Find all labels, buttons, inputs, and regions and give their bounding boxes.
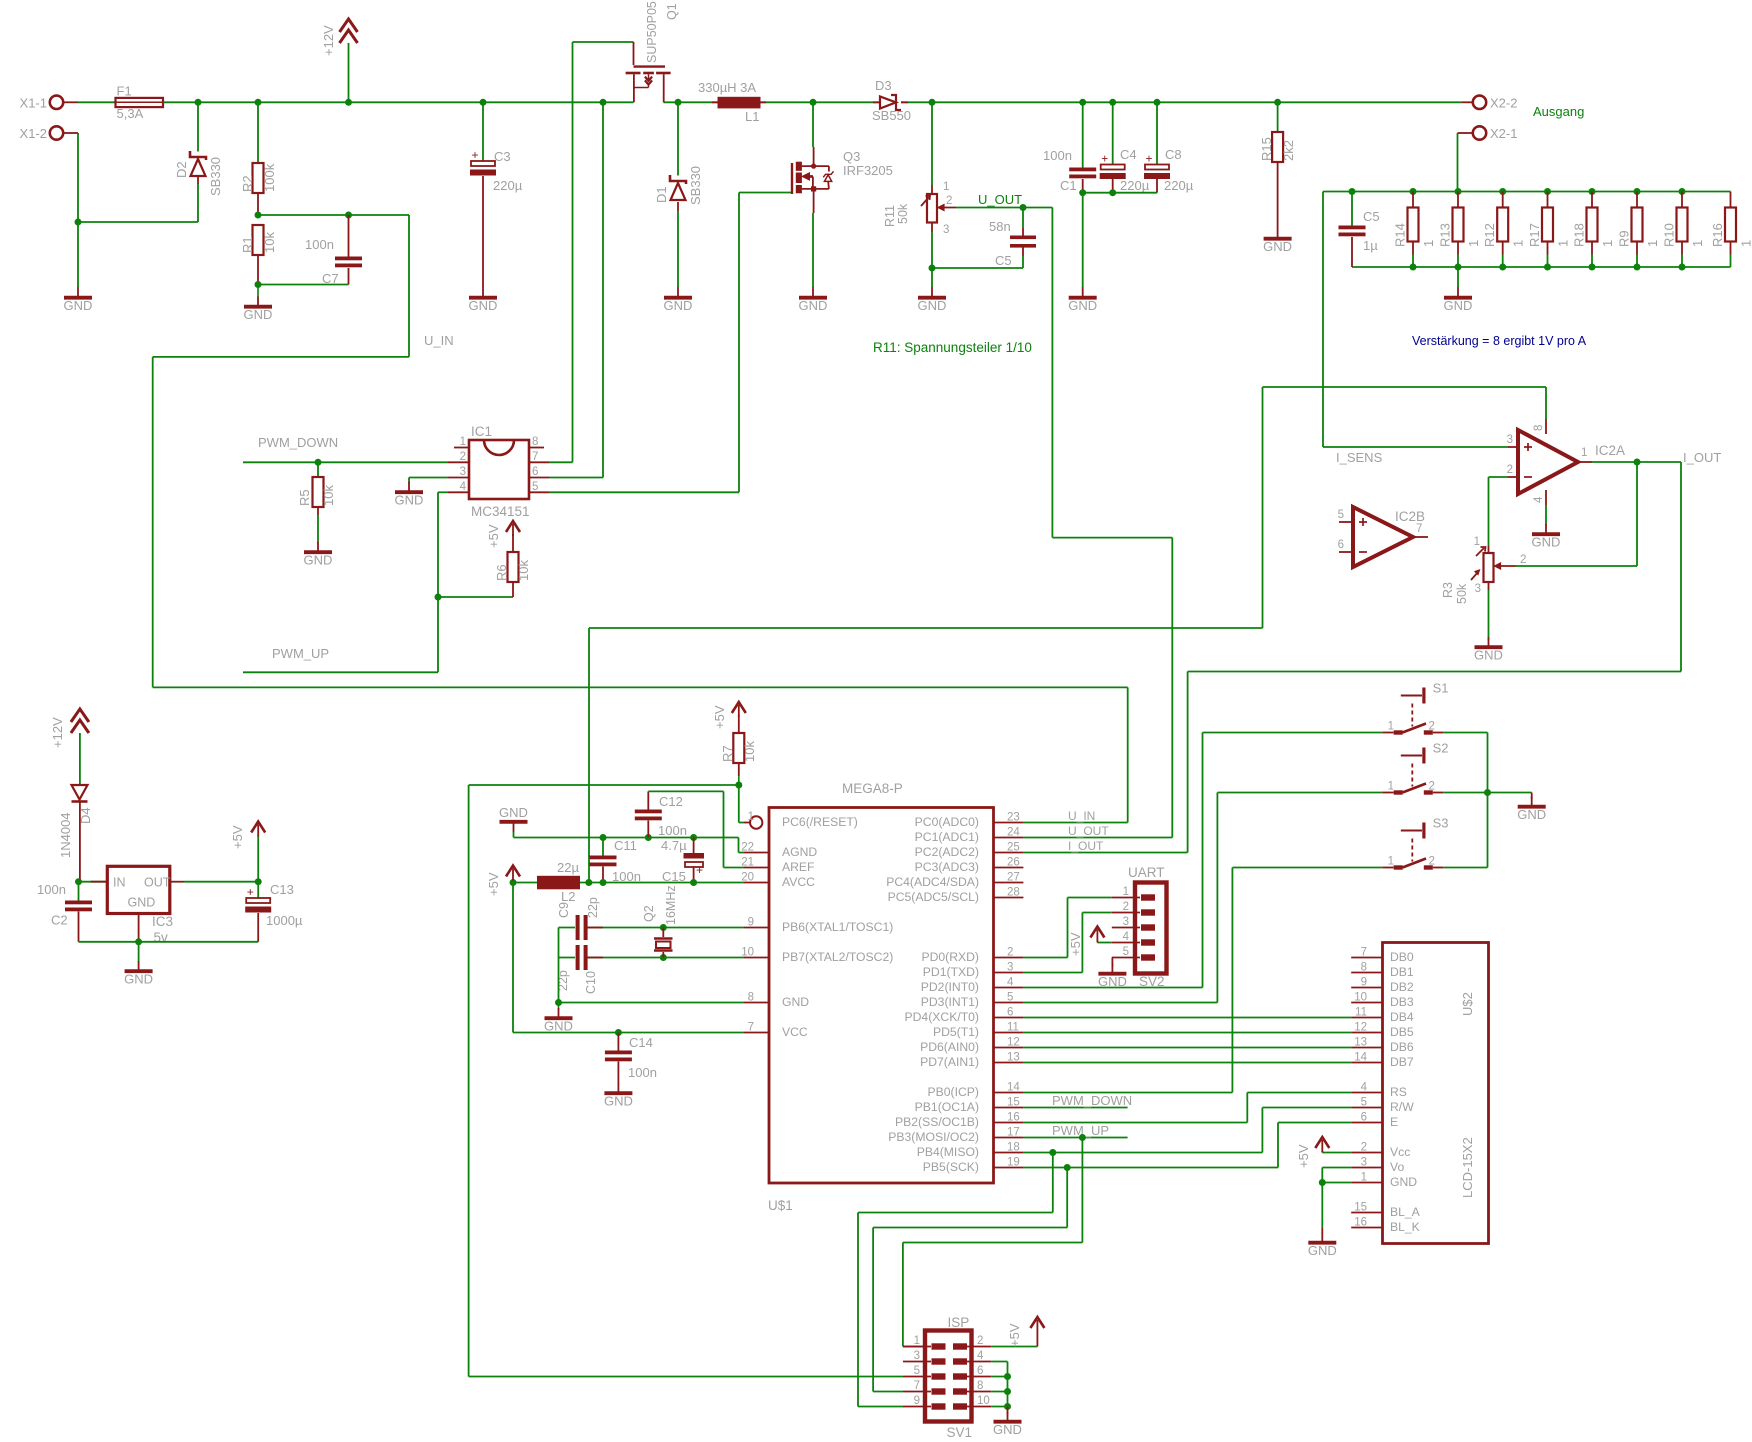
wire PB2 to LCD RS — [1023, 1093, 1351, 1123]
svg-text:12: 12 — [1007, 1037, 1020, 1049]
wire R3 to GND — [1488, 590, 1490, 640]
svg-text:SUP50P05: SUP50P05 — [645, 1, 659, 63]
junction C2/IN — [75, 878, 82, 885]
svg-text:D2: D2 — [174, 161, 189, 178]
label PWM_UP — [272, 646, 329, 661]
LCD pin 8 DB1 — [1351, 962, 1414, 980]
wire PD5 to DB5 — [1023, 1032, 1351, 1034]
svg-text:BL_K: BL_K — [1390, 1220, 1420, 1234]
power +5V (LCD Vcc) — [1296, 1137, 1351, 1168]
ground GND (X1) — [64, 288, 93, 314]
wire Q1 gate loop — [573, 42, 634, 462]
capacitor C10 22p — [556, 945, 603, 994]
svg-text:330µH 3A: 330µH 3A — [698, 80, 756, 95]
wire ISP gnd stub — [1007, 1407, 1009, 1415]
svg-text:SB550: SB550 — [872, 108, 911, 123]
SV2 pin 1 — [1112, 886, 1155, 901]
wire UART pin5 to GND — [1111, 958, 1113, 967]
svg-text:25: 25 — [1007, 842, 1020, 854]
MEGA8 pin 13 PD7(AIN1) — [920, 1052, 1023, 1070]
svg-text:3: 3 — [1123, 916, 1129, 928]
wire IC1 pin3 to GND — [409, 478, 448, 484]
svg-text:220µ: 220µ — [493, 178, 523, 193]
svg-text:3: 3 — [1475, 583, 1481, 595]
svg-text:3: 3 — [1361, 1157, 1367, 1169]
MEGA8 pin 12 PD6(AIN0) — [920, 1037, 1023, 1055]
svg-text:27: 27 — [1007, 872, 1020, 884]
MEGA8 pin 18 PB4(MISO) — [917, 1142, 1024, 1160]
MEGA8 pin 22 AGND — [741, 842, 817, 860]
MEGA8 pin 5 PD3(INT1) — [921, 992, 1024, 1010]
svg-text:3: 3 — [1007, 962, 1013, 974]
svg-text:2: 2 — [977, 1335, 983, 1347]
junction U_OUT/C5 — [1020, 204, 1027, 211]
power +12V (rail) — [321, 19, 358, 102]
wire S2 to PD3 — [1023, 793, 1382, 1003]
svg-text:Q3: Q3 — [843, 149, 860, 164]
svg-text:GND: GND — [395, 493, 424, 508]
power +12V (regulator) — [50, 709, 89, 785]
power +5V (IC3) — [230, 822, 265, 882]
connector pad X1-2 — [20, 126, 78, 141]
voltage regulator IC3 5v — [91, 866, 184, 945]
svg-text:PWM_DOWN: PWM_DOWN — [1052, 1093, 1132, 1108]
wire S1 to PD2 — [1023, 733, 1382, 988]
MEGA8 pin 6 PD4(XCK/T0) — [905, 1007, 1024, 1025]
MEGA8 pin 4 PD2(INT0) — [921, 977, 1024, 995]
svg-text:9: 9 — [748, 917, 754, 929]
wire shunt bottom bus — [1352, 266, 1731, 268]
svg-text:PWM_UP: PWM_UP — [272, 646, 329, 661]
svg-text:DB2: DB2 — [1390, 980, 1414, 994]
capacitor C9 22p — [557, 897, 603, 940]
label Ausgang — [1533, 104, 1584, 119]
svg-text:+5V: +5V — [712, 705, 727, 729]
wire PB4 to LCD R/W — [1023, 1108, 1351, 1153]
junctions shunt bottom bus — [1410, 264, 1686, 271]
svg-text:+5V: +5V — [486, 872, 501, 896]
connector U$2 LCD-15X2 box — [1383, 943, 1489, 1244]
svg-text:DB7: DB7 — [1390, 1055, 1414, 1069]
svg-text:100n: 100n — [37, 882, 66, 897]
svg-text:U_OUT: U_OUT — [978, 192, 1022, 207]
wire AVCC bus — [513, 882, 744, 884]
wire UART pin1 to PD0 — [1023, 898, 1111, 958]
svg-text:Verstärkung = 8 ergibt 1V pro: Verstärkung = 8 ergibt 1V pro A — [1412, 334, 1587, 348]
svg-text:2: 2 — [1361, 1142, 1367, 1154]
wire net I_OUT route to MEGA8 — [1188, 462, 1681, 853]
svg-text:AVCC: AVCC — [782, 875, 815, 889]
wire net U_OUT from wiper — [956, 207, 1052, 209]
svg-text:C14: C14 — [629, 1035, 653, 1050]
svg-text:1: 1 — [1123, 886, 1129, 898]
junctions ISP gnd — [1004, 1373, 1011, 1410]
svg-text:GND: GND — [544, 1019, 573, 1034]
transistor Q1 SUP50P05 — [626, 1, 679, 102]
svg-text:C8: C8 — [1165, 147, 1182, 162]
svg-text:PD1(TXD): PD1(TXD) — [923, 965, 979, 979]
svg-text:+: + — [1145, 152, 1152, 166]
capacitor C4 220u — [1100, 102, 1150, 193]
SV1 pins 5/6 — [903, 1365, 991, 1380]
svg-text:17: 17 — [1007, 1127, 1020, 1139]
svg-text:R1: R1 — [240, 236, 255, 253]
junctions AVCC bus — [510, 879, 698, 886]
MEGA8 pin 1 PC6(/RESET) — [744, 811, 858, 829]
LCD pin 7 DB0 — [1351, 947, 1414, 965]
wire I_OUT feedback to R3 wiper — [1516, 462, 1637, 566]
svg-text:VCC: VCC — [782, 1025, 808, 1039]
MEGA8 pin 10 PB7(XTAL2/TOSC2) — [741, 947, 893, 965]
svg-text:R16: R16 — [1710, 223, 1725, 247]
wire AGND bus — [514, 832, 745, 853]
connector SV2 UART box — [1128, 865, 1167, 989]
svg-text:X2-1: X2-1 — [1490, 126, 1517, 141]
svg-text:IC2A: IC2A — [1595, 443, 1625, 458]
svg-text:E: E — [1390, 1115, 1398, 1129]
svg-text:GND: GND — [128, 896, 156, 910]
junction OUT/C13 — [255, 878, 262, 885]
resistor R12 1ohm (shunt) — [1482, 192, 1526, 268]
svg-text:AREF: AREF — [782, 860, 815, 874]
svg-text:R17: R17 — [1527, 223, 1542, 247]
MEGA8 pin 2 PD0(RXD) — [921, 947, 1023, 965]
resistor R9 1ohm (shunt) — [1617, 192, 1661, 268]
svg-text:6: 6 — [977, 1365, 983, 1377]
svg-text:R10: R10 — [1662, 223, 1677, 247]
wire IC2A minus input to R3 — [1489, 477, 1509, 546]
svg-text:13: 13 — [1007, 1052, 1020, 1064]
ground GND (UART) — [1098, 964, 1127, 990]
MEGA8 pin 3 PD1(TXD) — [923, 962, 1024, 980]
svg-text:UART: UART — [1128, 865, 1165, 880]
label U_OUT (MEGA8) — [1068, 824, 1109, 838]
svg-text:1: 1 — [1511, 240, 1526, 247]
svg-text:RS: RS — [1390, 1085, 1407, 1099]
svg-text:DB5: DB5 — [1390, 1025, 1414, 1039]
MEGA8 pin 7 VCC — [744, 1022, 808, 1040]
svg-text:10k: 10k — [262, 232, 277, 253]
svg-text:DB6: DB6 — [1390, 1040, 1414, 1054]
svg-text:PD2(INT0): PD2(INT0) — [921, 980, 979, 994]
svg-text:Vcc: Vcc — [1390, 1145, 1410, 1159]
svg-text:LCD-15X2: LCD-15X2 — [1460, 1137, 1475, 1198]
power +5V (R7) — [712, 702, 746, 729]
svg-text:IC3: IC3 — [152, 914, 173, 929]
svg-text:L2: L2 — [561, 889, 575, 904]
svg-text:PB5(SCK): PB5(SCK) — [923, 1160, 979, 1174]
wire PD7 to DB7 — [1023, 1062, 1351, 1064]
resistor R6 10k — [438, 545, 531, 597]
svg-text:5v: 5v — [154, 930, 169, 945]
svg-text:Q1: Q1 — [665, 3, 679, 20]
svg-text:C4: C4 — [1120, 147, 1137, 162]
svg-text:11: 11 — [1007, 1022, 1019, 1034]
label U_OUT (R11) — [978, 192, 1022, 207]
svg-text:S2: S2 — [1433, 741, 1449, 756]
svg-text:26: 26 — [1007, 857, 1020, 869]
svg-text:+: + — [471, 148, 478, 162]
ground GND (AGND net) — [499, 805, 528, 832]
svg-text:8: 8 — [977, 1380, 983, 1392]
svg-text:PC6(/RESET): PC6(/RESET) — [782, 815, 858, 829]
svg-text:R5: R5 — [297, 489, 312, 506]
svg-text:1: 1 — [1388, 721, 1394, 733]
svg-text:+: + — [1101, 152, 1108, 166]
svg-text:GND: GND — [469, 298, 498, 313]
svg-text:4: 4 — [977, 1350, 984, 1362]
wire net PWM_UP — [243, 671, 438, 673]
junction IC3 GND — [135, 938, 142, 945]
MEGA8 pin 26 PC3(ADC3) — [915, 857, 1024, 875]
svg-text:U_IN: U_IN — [424, 333, 454, 348]
wire Q3 gate — [739, 192, 791, 194]
svg-text:10k: 10k — [742, 741, 757, 762]
svg-text:7: 7 — [914, 1380, 920, 1392]
capacitor C12 100n — [635, 791, 687, 838]
wire XTAL2 — [586, 957, 745, 959]
svg-text:5: 5 — [1338, 509, 1344, 521]
svg-text:C10: C10 — [584, 971, 598, 994]
wire common to GND — [1488, 793, 1532, 800]
svg-text:+5V: +5V — [230, 825, 245, 849]
diode D1 SB330 — [654, 102, 703, 288]
LCD pin 14 DB7 — [1351, 1052, 1414, 1070]
LCD pin 5 R/W — [1351, 1097, 1414, 1115]
svg-text:+12V: +12V — [50, 717, 65, 748]
svg-text:R11: R11 — [883, 205, 897, 227]
MEGA8 pin 21 AREF — [741, 857, 814, 875]
wire R2/R1 node to C7 and U_IN — [258, 214, 409, 216]
svg-text:R/W: R/W — [1390, 1100, 1414, 1114]
svg-text:19: 19 — [1007, 1157, 1020, 1169]
capacitor C14 100n — [605, 1033, 657, 1085]
MEGA8 pin 16 PB2(SS/OC1B) — [895, 1112, 1023, 1130]
svg-text:100n: 100n — [305, 237, 334, 252]
svg-text:1: 1 — [1645, 240, 1660, 247]
svg-text:I_OUT: I_OUT — [1683, 450, 1721, 465]
svg-text:2: 2 — [1007, 947, 1013, 959]
svg-text:10: 10 — [1354, 992, 1367, 1004]
wire PB4/MISO to ISP — [858, 1153, 1053, 1407]
SV1 pins 1/2 — [903, 1335, 991, 1350]
svg-text:220µ: 220µ — [1120, 178, 1150, 193]
svg-text:R15: R15 — [1259, 137, 1274, 161]
wire S3 to PB0 — [1023, 868, 1382, 1093]
ground GND (IC2A) — [1532, 524, 1561, 550]
svg-text:R2: R2 — [240, 175, 255, 192]
svg-text:GND: GND — [64, 298, 93, 313]
ground GND (MEGA8) — [544, 1008, 573, 1034]
MEGA8 pin 24 PC1(ADC1) — [915, 827, 1024, 845]
ground GND (ISP) — [993, 1412, 1022, 1438]
SV1 pins 3/4 — [903, 1350, 991, 1365]
connector SV1 ISP box — [925, 1315, 972, 1440]
svg-text:X1-2: X1-2 — [20, 126, 47, 141]
wire LCD gnd stub — [1321, 1228, 1323, 1233]
svg-text:100k: 100k — [262, 163, 277, 192]
wire Q3 drain to rail — [812, 102, 814, 147]
fuse F1 — [78, 84, 163, 122]
svg-text:PC5(ADC5/SCL): PC5(ADC5/SCL) — [888, 890, 979, 904]
svg-text:C1: C1 — [1060, 178, 1077, 193]
connector pad X2-2 — [1462, 96, 1517, 111]
MEGA8 pin 15 PB1(OC1A) — [915, 1097, 1024, 1115]
svg-text:Vo: Vo — [1390, 1160, 1404, 1174]
resistor R5 10k — [297, 462, 336, 543]
svg-text:6: 6 — [532, 466, 538, 478]
wire shunt GND stub — [1457, 267, 1459, 288]
svg-text:R12: R12 — [1482, 223, 1497, 247]
LCD pin 2 Vcc — [1351, 1142, 1410, 1160]
ground GND (D1) — [664, 288, 693, 314]
svg-text:5: 5 — [532, 481, 538, 493]
junction I_OUT — [1634, 459, 1641, 466]
wire Q3 source to GND — [812, 213, 814, 288]
svg-text:PD4(XCK/T0): PD4(XCK/T0) — [905, 1010, 980, 1024]
svg-text:OUT: OUT — [144, 876, 171, 890]
svg-text:GND: GND — [1474, 648, 1503, 663]
LCD pin 6 E — [1351, 1112, 1398, 1130]
junction MOSI — [1079, 1134, 1086, 1141]
svg-text:GND: GND — [124, 972, 153, 987]
junctions C1 bus — [1079, 189, 1116, 196]
svg-text:PD5(T1): PD5(T1) — [933, 1025, 979, 1039]
svg-text:+5V: +5V — [1068, 932, 1083, 956]
resistor R15 2k2 — [1259, 102, 1296, 229]
wire net I_SENS — [1323, 192, 1508, 448]
svg-text:4: 4 — [1361, 1082, 1368, 1094]
svg-text:PD3(INT1): PD3(INT1) — [921, 995, 979, 1009]
svg-text:5: 5 — [1123, 946, 1129, 958]
svg-text:5: 5 — [1361, 1097, 1367, 1109]
junction LCD gnd — [1319, 1179, 1326, 1186]
svg-text:PB2(SS/OC1B): PB2(SS/OC1B) — [895, 1115, 979, 1129]
MEGA8 pin 20 AVCC — [741, 872, 815, 890]
svg-text:GND: GND — [1068, 298, 1097, 313]
junctions AGND bus — [600, 834, 698, 841]
ground GND (C1) — [1068, 288, 1097, 314]
diode D3 SB550 — [872, 78, 911, 123]
svg-text:S3: S3 — [1433, 816, 1449, 831]
svg-text:SV1: SV1 — [947, 1425, 973, 1440]
svg-text:U$1: U$1 — [768, 1198, 793, 1213]
wire PWM_UP stub (PB3) — [1023, 1137, 1127, 1139]
svg-text:3: 3 — [1507, 434, 1513, 446]
wire XTAL1 — [586, 927, 745, 929]
power +5V (ISP pin2) — [991, 1317, 1044, 1347]
wire IC2A output / net I_OUT — [1592, 461, 1681, 463]
op-amp IC2B — [1338, 507, 1428, 567]
wire IC1 pin4 / net PWM_UP vertical — [438, 492, 448, 672]
IC1 pin 3 — [448, 466, 469, 478]
wire I_OUT into PC2 — [1023, 852, 1187, 854]
svg-text:D1: D1 — [654, 186, 669, 203]
svg-text:4.7µ: 4.7µ — [661, 838, 687, 853]
capacitor C15 4.7u — [661, 838, 704, 885]
svg-text:IC1: IC1 — [471, 424, 492, 439]
wire GND drop — [77, 222, 79, 288]
svg-text:15: 15 — [1354, 1202, 1367, 1214]
svg-text:R13: R13 — [1438, 223, 1453, 247]
svg-text:DB3: DB3 — [1390, 995, 1414, 1009]
resistor R1 10k — [240, 225, 277, 285]
wire crystal caps to GND — [558, 928, 560, 1003]
wire IC1 pin5 to Q3 gate — [549, 193, 739, 493]
MEGA8 pin 14 PB0(ICP) — [928, 1082, 1024, 1100]
resistor R13 1ohm (shunt) — [1438, 192, 1482, 268]
junction R1 bottom — [255, 281, 262, 288]
svg-text:7: 7 — [748, 1022, 754, 1034]
wire switch common — [1443, 733, 1487, 868]
wire C1 bus to GND — [1082, 193, 1084, 288]
svg-text:1: 1 — [943, 181, 949, 193]
wire +5V down to VCC — [513, 883, 744, 1033]
svg-text:5,3A: 5,3A — [117, 106, 144, 121]
svg-text:1µ: 1µ — [1363, 238, 1378, 253]
svg-text:8: 8 — [748, 992, 754, 1004]
svg-text:SB330: SB330 — [208, 157, 223, 196]
ground GND (R1) — [244, 285, 273, 323]
svg-text:28: 28 — [1007, 887, 1020, 899]
svg-text:U_IN: U_IN — [1068, 809, 1095, 823]
svg-text:I_OUT: I_OUT — [1068, 839, 1104, 853]
LCD pin 12 DB5 — [1351, 1022, 1414, 1040]
svg-text:C12: C12 — [659, 794, 683, 809]
svg-text:C5: C5 — [1363, 209, 1380, 224]
svg-text:2: 2 — [1429, 781, 1435, 793]
svg-text:+12V: +12V — [321, 25, 336, 56]
svg-text:5: 5 — [1007, 992, 1013, 1004]
svg-text:2: 2 — [946, 195, 952, 207]
svg-text:DB1: DB1 — [1390, 965, 1414, 979]
LCD pin 9 DB2 — [1351, 977, 1414, 995]
svg-text:R18: R18 — [1572, 223, 1587, 247]
svg-text:PWM_DOWN: PWM_DOWN — [258, 435, 338, 450]
svg-text:14: 14 — [1007, 1082, 1020, 1094]
wire R11 bottom to C5 — [932, 267, 1023, 269]
svg-text:1: 1 — [1690, 240, 1705, 247]
IC1 pin 2 — [448, 451, 469, 463]
ground GND (R11) — [918, 268, 947, 313]
svg-text:3: 3 — [460, 466, 466, 478]
svg-text:50k: 50k — [896, 203, 910, 224]
wire regulator ground bus — [79, 941, 259, 943]
svg-text:15: 15 — [1007, 1097, 1020, 1109]
svg-text:220µ: 220µ — [1164, 178, 1194, 193]
svg-text:GND: GND — [664, 298, 693, 313]
svg-text:14: 14 — [1354, 1052, 1367, 1064]
LCD pin 15 BL_A — [1351, 1202, 1420, 1220]
junctions on +12V rail — [195, 99, 1282, 106]
svg-text:IC2B: IC2B — [1395, 509, 1425, 524]
junction SCK — [1064, 1164, 1071, 1171]
svg-text:22µ: 22µ — [557, 860, 579, 875]
diode D2 SB330 — [174, 102, 223, 222]
svg-text:+: + — [247, 885, 254, 899]
wire D4 to IC3 IN — [80, 881, 107, 883]
IC1 pin 5 — [529, 481, 549, 493]
resistor R16 1ohm (shunt) — [1710, 192, 1752, 268]
svg-text:X2-2: X2-2 — [1490, 96, 1517, 111]
MEGA8 pin 23 PC0(ADC0) — [915, 812, 1024, 830]
svg-text:C5: C5 — [995, 253, 1012, 268]
SV2 pin 3 — [1112, 916, 1155, 931]
svg-text:DB0: DB0 — [1390, 950, 1414, 964]
IC1 pin 4 — [448, 481, 469, 493]
svg-text:16: 16 — [1354, 1217, 1367, 1229]
wire IC2A V- to GND — [1545, 505, 1547, 525]
